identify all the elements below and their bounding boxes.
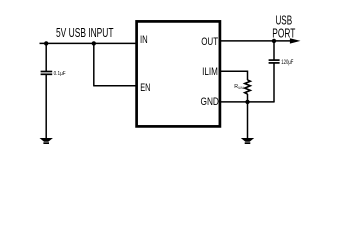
wire: resistor bottom lead xyxy=(247,94,249,102)
svg-text:OUT: OUT xyxy=(201,36,218,48)
svg-text:5V USB INPUT: 5V USB INPUT xyxy=(56,25,114,40)
wire: C2 bottom lead xyxy=(273,63,275,102)
ground (input) xyxy=(40,138,53,144)
svg-text:GND: GND xyxy=(201,96,219,108)
svg-text:PORT: PORT xyxy=(272,25,295,40)
wire: OUT to USB port xyxy=(219,40,291,42)
svg-text:120µF: 120µF xyxy=(281,60,293,66)
ground (output) xyxy=(241,138,254,144)
op IC U1 (load switch) xyxy=(137,21,220,126)
wire: ILIM pin to resistor xyxy=(219,71,248,80)
capacitor C1 0.1uF xyxy=(41,72,53,75)
svg-text:ILIM: ILIM xyxy=(202,66,218,78)
wire: 5V USB input to IN pin xyxy=(40,42,139,44)
wire: C1 bottom lead xyxy=(45,75,47,139)
svg-text:ILIM: ILIM xyxy=(238,86,244,90)
wire: C2 top lead xyxy=(273,41,275,60)
svg-text:0.1µF: 0.1µF xyxy=(54,71,67,77)
svg-text:IN: IN xyxy=(140,34,148,46)
junction dot at C2 branch xyxy=(272,39,276,43)
wire: GND pin to C2 bottom xyxy=(219,101,275,103)
wire: C1 top lead xyxy=(45,43,47,71)
wire: GND net down xyxy=(247,102,249,139)
resistor RILIM xyxy=(245,80,251,94)
arrowhead USB PORT xyxy=(290,38,301,43)
capacitor C2 120uF xyxy=(269,60,280,63)
net label USB PORT xyxy=(272,12,295,40)
junction dot at C1 branch xyxy=(44,41,48,45)
value label RILIM xyxy=(234,84,243,90)
svg-text:EN: EN xyxy=(140,82,150,94)
junction dot at EN branch xyxy=(92,41,96,45)
wire: EN branch vertical xyxy=(93,43,95,85)
junction dot at resistor/GND xyxy=(245,100,249,104)
wire: EN branch horizontal to EN pin xyxy=(93,85,138,87)
